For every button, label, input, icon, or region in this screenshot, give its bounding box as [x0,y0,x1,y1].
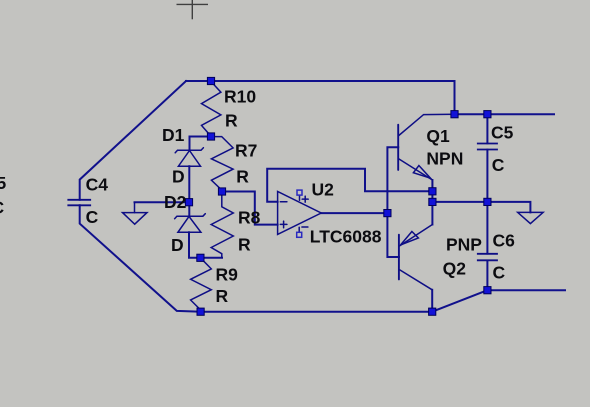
diode D2 (zener) [175,214,206,233]
wire Q2 collector lead [431,290,433,312]
capacitor C5 [477,144,498,150]
diode D1 (zener) [175,148,203,167]
node C5 bottom [484,198,491,205]
node R10/R7/D1 [207,133,214,140]
svg-text:C6: C6 [493,230,516,250]
wire C5 top lead [486,114,488,143]
node D2/R8/R9 [197,254,204,261]
node R7/R8/+in [218,188,225,195]
wire C5 bottom lead [486,150,488,202]
svg-text:5: 5 [0,173,7,193]
junction squares [185,77,491,315]
svg-text:PNP: PNP [446,234,482,254]
svg-text:C: C [493,262,506,282]
wire emitter rail [431,180,433,225]
op-amp U2 [278,190,322,237]
svg-text:U2: U2 [312,180,335,200]
svg-text:R: R [216,286,229,306]
svg-text:C: C [86,207,99,227]
cursor crosshair [177,0,209,19]
wire bottom rail [201,311,433,313]
node D1/D2/gnd [185,199,192,206]
wire mid rail to right ground [432,202,530,213]
wire opamp output to base rail [321,212,387,214]
wire R7 bottom to opamp plus input [222,192,278,225]
svg-text:R7: R7 [235,141,257,161]
resistor R10 [202,82,221,137]
resistor R9 [191,258,212,312]
svg-text:R: R [236,167,249,187]
wire D2 bottom to junction [189,232,222,257]
wire left upper diagonal [80,81,186,200]
svg-text:D: D [171,235,184,255]
wire left lower diagonal [80,205,201,311]
wire feedback loop [267,169,432,202]
wire diagonal C6 to bottom rail [432,290,487,312]
node Q2 collector / bottom rail [429,308,436,315]
svg-text:Q2: Q2 [443,258,467,278]
svg-text:C: C [492,155,505,175]
svg-text:R: R [225,111,238,131]
capacitor C4 [67,200,91,206]
node base rail / opamp out [384,210,391,217]
svg-text:LTC6088: LTC6088 [310,227,382,247]
ground left [123,202,148,224]
node top rail corner / Q1 collector [451,111,458,118]
svg-text:R8: R8 [238,208,261,228]
wire D1 to D2 [188,166,190,216]
wire base rail [387,147,399,257]
wire C6 bottom lead [486,261,488,291]
svg-text:R: R [238,234,251,254]
svg-text:D: D [172,167,185,187]
wire D1 top jog [190,137,212,151]
wire top rail [186,81,554,114]
svg-text:C5: C5 [491,122,514,142]
resistor R8 [211,192,233,258]
node emitter/feedback [429,188,436,195]
svg-text:D2: D2 [164,192,187,212]
node C5 top [484,111,491,118]
transistor Q1 NPN [398,114,455,191]
svg-text:Q1: Q1 [426,126,450,146]
svg-text:R10: R10 [224,87,256,107]
svg-text:C4: C4 [86,175,109,195]
wire C6 top lead [486,202,488,254]
ground right [518,212,543,223]
svg-text:C: C [0,198,5,218]
resistor R7 [211,137,233,192]
node R9 bottom rail [197,308,204,315]
node C6 bottom [484,287,491,294]
svg-text:R9: R9 [216,265,239,285]
transistor Q2 PNP [399,225,433,290]
node emitter/mid rail [429,198,436,205]
wire ground tap left [135,201,190,203]
node top rail / R10 [207,77,214,84]
wire bottom right output [487,289,565,291]
svg-text:D1: D1 [162,125,185,145]
capacitor C6 [477,254,498,260]
svg-text:NPN: NPN [426,148,463,168]
